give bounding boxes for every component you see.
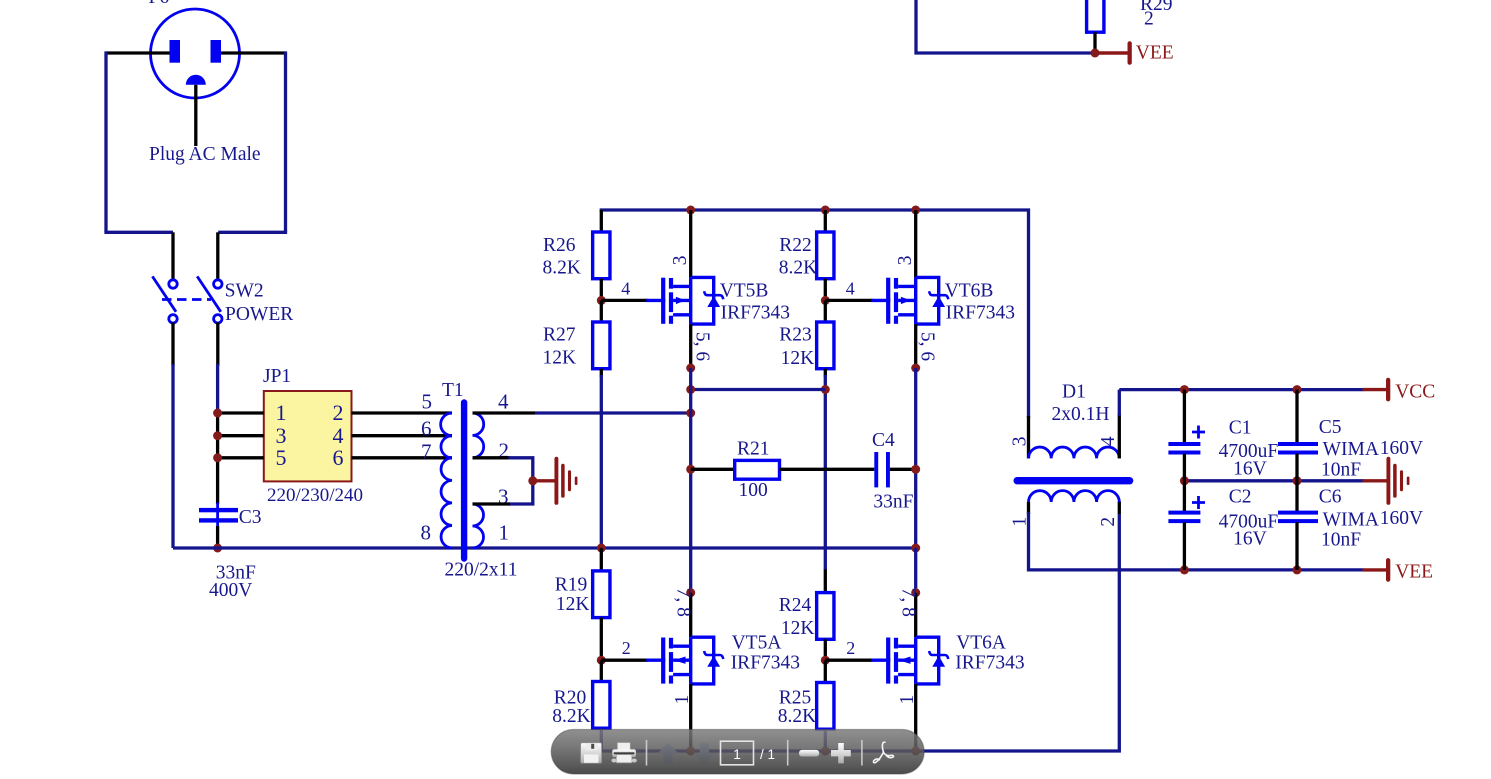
svg-text:400V: 400V	[209, 580, 252, 601]
wire R20 to hidden rail	[600, 728, 603, 751]
svg-text:160V: 160V	[1380, 438, 1423, 459]
resistor R20	[593, 682, 610, 729]
wire C5 to mid rail	[1295, 454, 1298, 481]
wire right branch down to JP1	[216, 364, 219, 414]
wire VT5B drain	[689, 210, 692, 277]
junction dot JP1 row3	[213, 453, 222, 462]
junction dot T1 center tap	[528, 476, 537, 485]
wire VT5B source node down	[689, 368, 692, 413]
svg-text:WIMA: WIMA	[1323, 439, 1379, 460]
svg-text:P6: P6	[149, 0, 170, 8]
svg-text:33nF: 33nF	[873, 492, 913, 513]
capacitor C2 bottom plate	[1168, 519, 1200, 523]
capacitor C1 top plate	[1168, 442, 1200, 446]
wire VT5B source	[689, 324, 692, 368]
svg-text:10nF: 10nF	[1321, 459, 1361, 480]
svg-text:6: 6	[333, 445, 344, 470]
svg-text:7, 8: 7, 8	[672, 588, 693, 617]
wire JP1 pin4 to T1 pin6	[352, 434, 453, 437]
svg-text:8: 8	[421, 521, 432, 545]
svg-text:R21: R21	[737, 438, 770, 459]
svg-text:WIMA: WIMA	[1323, 510, 1379, 531]
svg-text:R19: R19	[555, 574, 588, 595]
toolbar save icon	[581, 743, 602, 764]
svg-text:220/2x11: 220/2x11	[445, 560, 518, 581]
junction dot T1 pin4 node	[686, 409, 695, 418]
wire gate node to R27	[600, 300, 603, 322]
wire R26 to gate node	[600, 279, 603, 301]
wire top rail to R26	[600, 210, 603, 232]
wire C6 to VEE rail	[1295, 522, 1298, 570]
wire bottom rail to R19	[600, 548, 603, 571]
svg-text:4: 4	[498, 390, 509, 414]
svg-text:5, 6: 5, 6	[692, 332, 713, 362]
resistor R26	[593, 232, 610, 279]
svg-text:2: 2	[333, 400, 344, 425]
wire mid rail	[1184, 479, 1363, 482]
svg-text:16V: 16V	[1233, 459, 1267, 480]
wire JP1 pin5 stub	[218, 456, 264, 459]
svg-text:160V: 160V	[1380, 508, 1423, 529]
svg-text:7, 8: 7, 8	[897, 588, 918, 617]
svg-text:8.2K: 8.2K	[543, 258, 581, 279]
capacitor C5 bottom plate	[1278, 451, 1318, 455]
svg-text:12K: 12K	[543, 348, 577, 369]
wire D1 pin1 down to VEE rail	[1029, 512, 1364, 570]
wire VT5A source	[689, 684, 692, 748]
wire VT5A gate lead	[601, 659, 647, 662]
wire bottom rail from switch to VT6A drain	[173, 546, 916, 549]
junction dot mid rail C5	[1293, 476, 1302, 485]
transformer T1 secondary top winding	[473, 413, 484, 458]
wire plug loop bottom right	[218, 231, 287, 234]
wire JP1 pin1 stub	[218, 411, 264, 414]
junction dot JP1 row2	[213, 431, 222, 440]
svg-text:VEE: VEE	[1395, 562, 1433, 583]
svg-text:12K: 12K	[556, 594, 590, 615]
svg-text:POWER: POWER	[225, 304, 293, 325]
junction dot VT6B source	[911, 364, 920, 373]
toolbar pill	[551, 730, 924, 775]
junction dot VEE C5	[1293, 565, 1302, 574]
wire C1 to mid rail	[1183, 454, 1186, 481]
svg-text:JP1: JP1	[263, 366, 291, 387]
transistor VT5B	[691, 277, 714, 324]
resistor R24	[817, 593, 834, 640]
resistor R29 (cut off)	[1087, 0, 1104, 32]
svg-text:T1: T1	[442, 380, 464, 401]
wire VT6B drain	[914, 210, 917, 277]
svg-text:12K: 12K	[781, 348, 815, 369]
wire VCC to C1	[1183, 390, 1186, 443]
wire T1 pin3 lead	[473, 502, 511, 505]
wire R27 to bottom rail	[600, 375, 603, 548]
svg-text:C1: C1	[1229, 418, 1252, 439]
toolbar down arrow (disabled)	[694, 743, 715, 765]
plug right prong	[211, 40, 222, 63]
junction dot VT5B source branch	[686, 385, 695, 394]
wire C3 blue lead	[216, 503, 219, 528]
svg-text:IRF7343: IRF7343	[946, 302, 1015, 323]
plug P6 body circle	[151, 9, 240, 98]
power symbol VEE	[1363, 558, 1391, 582]
wire plug left lead	[106, 51, 170, 54]
transformer T1 secondary bottom winding	[473, 504, 484, 548]
wire VT6B source node down	[914, 368, 917, 548]
wire T1 pin2 lead	[473, 456, 511, 459]
C2 plus sign	[1192, 496, 1205, 509]
toolbar separator 2	[787, 740, 789, 766]
junction dot R21 left	[686, 465, 695, 474]
capacitor C3 bottom plate	[199, 518, 238, 522]
C1 plus sign	[1192, 426, 1205, 439]
wire switch pole2 out black	[216, 322, 219, 366]
svg-text:IRF7343: IRF7343	[731, 652, 800, 673]
wire C2 to VEE rail	[1183, 522, 1186, 570]
wire VCC to C5	[1295, 390, 1298, 443]
junction dot hidden rail VT6A	[911, 747, 920, 756]
wire plug loop bottom left	[104, 231, 173, 234]
wire VT6B column to VT6A	[914, 548, 917, 594]
svg-text:1: 1	[897, 695, 918, 705]
plug left prong	[170, 40, 181, 63]
wire R22 to gate node	[824, 279, 827, 301]
wire VT6A source	[914, 684, 917, 748]
junction dot top rail VT5B	[686, 206, 695, 215]
svg-text:SW2: SW2	[225, 281, 264, 302]
svg-text:2: 2	[1098, 517, 1119, 527]
transformer T1 primary winding	[441, 413, 452, 548]
wire VT6B gate lead	[825, 299, 872, 302]
capacitor C6 top plate	[1278, 511, 1318, 515]
transistor VT6A	[916, 637, 939, 684]
wire R21 left lead	[691, 468, 735, 471]
svg-text:/ 1: / 1	[760, 747, 775, 762]
wire VT5A drain black	[689, 593, 692, 638]
junction dot VEE C1	[1180, 565, 1189, 574]
wire left column through C3 lower	[216, 526, 219, 548]
power symbol VCC	[1363, 378, 1391, 402]
transistor VT5A	[691, 637, 714, 684]
svg-text:VT6B: VT6B	[945, 280, 994, 301]
wire mid rail to C6	[1295, 481, 1298, 512]
svg-text:8.2K: 8.2K	[779, 257, 817, 278]
wire D1 pin2 lead black	[1118, 502, 1121, 515]
wire plug loop right vertical	[284, 51, 287, 232]
junction dot C4 right	[911, 465, 920, 474]
junction dot hidden rail VT5A	[686, 747, 695, 756]
switch SW2 dashed link	[162, 298, 211, 301]
svg-text:C4: C4	[872, 430, 895, 451]
svg-text:VT5B: VT5B	[720, 280, 769, 301]
svg-text:12K: 12K	[781, 618, 815, 639]
wire drop to switch pole 1	[171, 232, 174, 280]
svg-text:16V: 16V	[1233, 528, 1267, 549]
junction dot R29 VEE node	[1091, 49, 1100, 58]
capacitor C1 bottom plate	[1168, 451, 1200, 455]
junction dot top rail R22	[821, 206, 830, 215]
switch SW2 pole 1 top contact	[169, 280, 177, 288]
svg-text:1: 1	[672, 695, 693, 705]
wire plug loop left vertical	[104, 51, 107, 232]
wire D1 pin4 up to VCC rail	[1118, 390, 1121, 416]
svg-text:4: 4	[1098, 436, 1119, 446]
junction dot VCC C1	[1180, 385, 1189, 394]
junction dot hidden rail R25	[821, 747, 830, 756]
wire T1 center tap loop	[508, 458, 532, 504]
svg-text:VEE: VEE	[1136, 42, 1174, 63]
wire T1 pin4 to VT5B source node	[535, 411, 691, 414]
wire top right feed	[916, 0, 1095, 53]
wire column to R24 black	[824, 570, 827, 594]
junction dot VT6A gate divider	[821, 656, 830, 665]
svg-text:5: 5	[276, 445, 287, 470]
toolbar zoom out button	[799, 750, 819, 757]
ground symbol at T1 center tap	[535, 457, 577, 505]
junction dot C3 bottom rail	[213, 544, 222, 553]
svg-text:1: 1	[733, 746, 741, 762]
svg-text:6: 6	[421, 416, 432, 440]
svg-text:C3: C3	[239, 507, 262, 528]
svg-text:5, 6: 5, 6	[917, 332, 938, 362]
toolbar zoom in button	[831, 743, 851, 763]
wire R24 to gate node	[824, 639, 827, 660]
resistor R25	[817, 683, 834, 730]
wire C4 right lead	[890, 468, 916, 471]
junction dot R23 bottom node	[821, 385, 830, 394]
svg-text:VT6A: VT6A	[956, 633, 1006, 654]
svg-text:IRF7343: IRF7343	[721, 302, 790, 323]
junction dot VT5A drain stub	[686, 588, 695, 597]
wire drop to switch pole 2	[216, 232, 219, 280]
toolbar up arrow (disabled)	[658, 743, 679, 764]
wire R27 down black	[600, 369, 603, 377]
svg-text:1: 1	[276, 400, 287, 425]
capacitor C6 bottom plate	[1278, 519, 1318, 523]
wire mid rail to C2	[1183, 481, 1186, 512]
svg-text:3: 3	[895, 256, 916, 266]
switch SW2 pole 2 top contact	[214, 280, 222, 288]
wire VT5B source to R23 node	[691, 388, 826, 391]
power symbol VEE top	[1099, 41, 1132, 65]
svg-text:R22: R22	[779, 235, 812, 256]
junction dot JP1 row1	[213, 409, 222, 418]
capacitor C3 top plate	[199, 508, 238, 512]
svg-text:C2: C2	[1229, 487, 1252, 508]
svg-text:1: 1	[499, 521, 510, 545]
svg-text:C6: C6	[1319, 487, 1342, 508]
svg-text:2: 2	[1144, 9, 1154, 30]
wire D1 pin1 lead black	[1027, 502, 1030, 514]
wire R29 bottom lead	[1093, 32, 1096, 53]
inductor D1 top winding	[1029, 447, 1120, 458]
toolbar separator 1	[646, 740, 648, 766]
toolbar page number box	[721, 741, 754, 765]
svg-text:VT5A: VT5A	[732, 633, 782, 654]
svg-text:100: 100	[739, 480, 768, 501]
switch SW2 pole 1 blade	[152, 276, 176, 311]
junction dot top rail VT6B	[911, 206, 920, 215]
wire gate node to R25	[824, 660, 827, 683]
junction dot VT5B gate divider	[597, 296, 606, 305]
wire left column through C3 upper	[216, 413, 219, 504]
ground symbol right	[1363, 457, 1410, 505]
svg-text:5: 5	[422, 390, 433, 414]
inductor D1 core	[1014, 477, 1134, 484]
wire VCC rail	[1119, 388, 1363, 391]
wire gate node to R20	[600, 660, 603, 682]
switch SW2 pole 1 bottom contact	[169, 315, 177, 323]
svg-text:3: 3	[1010, 437, 1031, 447]
svg-text:10nF: 10nF	[1321, 530, 1361, 551]
svg-text:4: 4	[621, 278, 630, 298]
wire VT6A drain black	[914, 593, 917, 638]
wire plug right lead	[221, 51, 286, 54]
wire gate node to R23	[824, 300, 827, 322]
svg-text:2: 2	[846, 638, 855, 658]
junction dot left column bottom rail	[597, 544, 606, 553]
switch SW2 pole 2 bottom contact	[214, 315, 222, 323]
transistor VT6B	[916, 277, 939, 324]
junction dot VT6B gate divider	[821, 296, 830, 305]
wire left branch down to bottom rail	[171, 364, 174, 548]
junction dot VCC C5	[1293, 385, 1302, 394]
wire T1 pin4 lead black	[473, 411, 536, 414]
wire switch pole1 out black	[171, 322, 174, 366]
wire D1 pin4 lead black	[1118, 414, 1121, 458]
wire top rail to R22	[824, 210, 827, 232]
resistor R21	[735, 460, 780, 479]
wire VT6B source	[914, 324, 917, 368]
wire JP1 pin2 to T1 pin5	[352, 411, 453, 414]
capacitor C4 right plate	[886, 452, 890, 487]
transformer T1 core	[461, 399, 467, 561]
svg-text:3: 3	[670, 256, 691, 266]
junction dot VT6B column bottom rail	[911, 544, 920, 553]
svg-text:7: 7	[421, 440, 432, 464]
wire R23 to lower half	[824, 375, 827, 570]
svg-text:R27: R27	[543, 324, 576, 345]
svg-text:D1: D1	[1062, 382, 1086, 403]
wire VT6A gate lead	[825, 659, 872, 662]
svg-text:8.2K: 8.2K	[778, 706, 816, 727]
resistor R19	[593, 571, 610, 618]
plug ground pin	[186, 75, 206, 85]
svg-text:R23: R23	[779, 325, 812, 346]
switch SW2 pole 2 blade	[197, 276, 221, 311]
wire R23 down black	[824, 369, 827, 377]
resistor R23	[817, 322, 834, 369]
svg-text:8.2K: 8.2K	[552, 706, 590, 727]
toolbar print icon	[611, 743, 637, 763]
svg-text:220/230/240: 220/230/240	[267, 485, 363, 506]
svg-text:4: 4	[846, 278, 855, 298]
junction dot VT6A drain stub	[911, 588, 920, 597]
wire VT5B gate lead	[601, 299, 647, 302]
wire plug pin stem	[194, 85, 197, 146]
wire JP1 pin3 stub	[218, 434, 264, 437]
wire R21 right lead to C4	[780, 468, 875, 471]
svg-text:R26: R26	[543, 235, 576, 256]
wire hidden bottom rail behind toolbar	[601, 514, 1119, 751]
toolbar separator 3	[861, 740, 863, 766]
svg-text:VCC: VCC	[1395, 382, 1435, 403]
wire JP1 pin6 to T1 pin7	[352, 456, 453, 459]
junction dot VT5B source	[686, 364, 695, 373]
junction dot VT5A gate divider	[597, 656, 606, 665]
svg-text:R24: R24	[779, 595, 812, 616]
wire R25 to hidden rail	[824, 729, 827, 751]
capacitor C4 left plate	[874, 452, 878, 487]
svg-text:2x0.1H: 2x0.1H	[1052, 404, 1110, 425]
toolbar acrobat logo	[873, 742, 893, 763]
inductor D1 bottom winding	[1029, 491, 1120, 502]
junction dot mid rail C1	[1180, 476, 1189, 485]
capacitor C5 top plate	[1278, 442, 1318, 446]
connector JP1 body	[264, 391, 352, 481]
resistor R22	[817, 232, 834, 279]
capacitor C2 top plate	[1168, 511, 1200, 515]
svg-text:IRF7343: IRF7343	[955, 652, 1024, 673]
svg-text:2: 2	[622, 638, 631, 658]
svg-text:C5: C5	[1319, 417, 1342, 438]
resistor R27	[593, 322, 610, 369]
wire R19 to gate node	[600, 618, 603, 661]
wire D1 pin3 lead black	[1027, 416, 1030, 458]
wire VT5B node down to R21 row	[689, 413, 692, 594]
wire top rail	[601, 210, 1028, 418]
svg-text:Plug AC Male: Plug AC Male	[149, 144, 261, 165]
